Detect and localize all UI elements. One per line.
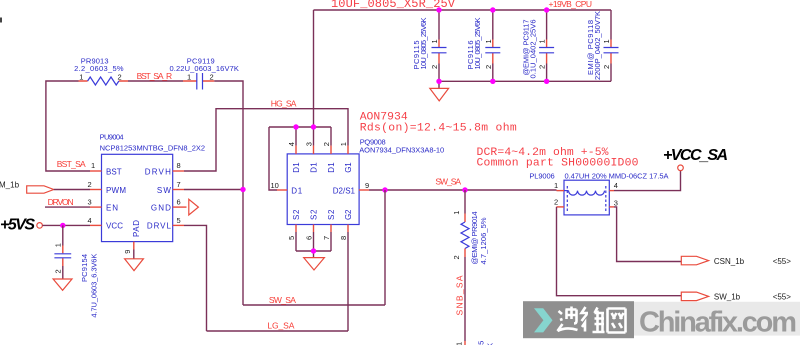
svg-text:Chinafix.com: Chinafix.com bbox=[639, 307, 797, 339]
svg-text:DRVON: DRVON bbox=[48, 197, 74, 207]
svg-text:2: 2 bbox=[484, 65, 493, 69]
svg-text:SW: SW bbox=[157, 186, 171, 195]
svg-text:PU9004: PU9004 bbox=[100, 133, 124, 142]
node pin9 junction dot bbox=[382, 187, 387, 192]
svg-text:D2/S1: D2/S1 bbox=[333, 186, 356, 195]
label sheet ref 55b bbox=[773, 293, 792, 302]
svg-text:2: 2 bbox=[88, 180, 92, 189]
svg-text:2: 2 bbox=[54, 269, 63, 273]
svg-text:DRVL: DRVL bbox=[147, 222, 172, 231]
pin number 1 PC9117 bbox=[538, 39, 547, 43]
port CSN_1b arrow bbox=[681, 256, 708, 265]
svg-text:Common part SH00000ID00: Common part SH00000ID00 bbox=[477, 158, 639, 170]
capacitor PC9116 bbox=[485, 10, 500, 81]
pin number 1 PR9013 bbox=[79, 73, 83, 82]
svg-text:Rds(on)=12.4~15.8m ohm: Rds(on)=12.4~15.8m ohm bbox=[360, 122, 517, 134]
node SW_SA bottom label bbox=[269, 295, 296, 305]
svg-text:55: 55 bbox=[477, 341, 486, 345]
pin number 1 PC9119 bbox=[187, 73, 191, 82]
pin 9 D2/S1 bbox=[333, 181, 369, 195]
pin 2 D1 top bbox=[322, 127, 336, 173]
svg-text:BST_SA: BST_SA bbox=[57, 159, 86, 169]
node SW junction dot bbox=[240, 187, 245, 192]
ground FET source bbox=[304, 258, 325, 270]
svg-text:PWM: PWM bbox=[106, 186, 126, 195]
svg-text:2: 2 bbox=[554, 197, 558, 206]
wire pin4 to +VCC_SA bbox=[614, 171, 681, 191]
svg-text:1: 1 bbox=[602, 39, 611, 43]
svg-text:1: 1 bbox=[452, 211, 461, 215]
svg-text:2: 2 bbox=[322, 142, 331, 146]
pin 5 S2 bottom bbox=[287, 209, 301, 251]
node SW_SA right label bbox=[435, 177, 461, 187]
node SNB junction dot bbox=[462, 187, 467, 192]
value 4.7_1206_5% bbox=[479, 217, 488, 264]
svg-text:8: 8 bbox=[177, 161, 181, 170]
label PQ9008 bbox=[360, 138, 386, 147]
svg-text:10U_0805_25V6K: 10U_0805_25V6K bbox=[419, 18, 428, 70]
svg-text:CSN_1b: CSN_1b bbox=[714, 257, 745, 266]
wire DRVL to LG_SA bbox=[184, 225, 207, 331]
label fragment 55 bbox=[477, 341, 486, 345]
svg-text:D1: D1 bbox=[292, 162, 301, 173]
svg-text:9: 9 bbox=[123, 250, 132, 254]
wire FET source bus bbox=[296, 251, 331, 258]
port SW_1b arrow bbox=[681, 292, 708, 301]
port PWM_1b input arrow bbox=[27, 186, 90, 193]
value label 10UF_0805_X5R_25V bbox=[331, 0, 456, 11]
pin number 2 PC9116 bbox=[484, 65, 493, 69]
resistor PR9013 bbox=[79, 77, 129, 85]
svg-text:1: 1 bbox=[54, 243, 63, 247]
svg-text:1: 1 bbox=[187, 73, 191, 82]
node BST_SA_R bbox=[137, 71, 173, 81]
wire G2 to LG_SA bbox=[347, 232, 349, 331]
annotation Rds(on) bbox=[360, 122, 517, 134]
pin number 2 PC9119 bbox=[210, 73, 214, 82]
svg-text:PC9154: PC9154 bbox=[80, 254, 89, 282]
wire pin2 to SW_1b bbox=[557, 207, 682, 296]
pin number 1 PC9116 bbox=[484, 39, 493, 43]
svg-text:AON7934_DFN3X3A8-10: AON7934_DFN3X3A8-10 bbox=[359, 145, 444, 154]
svg-text:4: 4 bbox=[88, 216, 92, 225]
pin number 1 bottom cut bbox=[455, 342, 464, 345]
label PC9116 bbox=[466, 41, 475, 70]
svg-text:2: 2 bbox=[118, 73, 122, 82]
value 0.47UH 20% MMD-06CZ 17.5A bbox=[565, 172, 669, 181]
svg-text:SW_SA: SW_SA bbox=[269, 295, 296, 305]
wire SW pin7 to vertical bbox=[184, 189, 243, 191]
pin number 2 PC9118 bbox=[602, 65, 611, 69]
svg-text:5: 5 bbox=[177, 216, 181, 225]
node BST_SA bbox=[57, 159, 86, 169]
pin 6 GND stub bbox=[151, 198, 187, 213]
svg-text:+VCC_SA: +VCC_SA bbox=[663, 147, 728, 164]
inductor PL9006 body bbox=[564, 180, 609, 215]
svg-text:2: 2 bbox=[602, 65, 611, 69]
label PC9115 bbox=[412, 41, 421, 70]
svg-text:PL9006: PL9006 bbox=[529, 172, 554, 181]
node +5VS bbox=[0, 217, 42, 234]
junction dots top rail bbox=[436, 7, 549, 12]
wire PR9013 to PC9119 bbox=[128, 80, 183, 82]
edge mark top-left bbox=[0, 18, 2, 23]
svg-text:3: 3 bbox=[88, 198, 92, 207]
svg-text:8: 8 bbox=[339, 236, 348, 240]
svg-text:0.47UH 20% MMD-06CZ 17.5A: 0.47UH 20% MMD-06CZ 17.5A bbox=[565, 172, 669, 181]
label PC9119 bbox=[187, 56, 215, 65]
node VCC junction bbox=[60, 223, 65, 228]
wire cap bank bottom rail bbox=[439, 80, 611, 82]
watermark chevron bbox=[534, 308, 553, 332]
svg-text:BST: BST bbox=[106, 167, 122, 176]
pin 1 BST stub bbox=[90, 161, 122, 176]
svg-text:4.7U_0603_6.3V6K: 4.7U_0603_6.3V6K bbox=[90, 254, 99, 318]
svg-text:4: 4 bbox=[614, 181, 618, 190]
pin 8 DRVH stub bbox=[145, 161, 184, 176]
pin 7 SW stub bbox=[157, 180, 184, 195]
svg-text:S2: S2 bbox=[310, 209, 319, 220]
pin number 2 PR9014 bbox=[452, 255, 461, 259]
pin 3 PL9006 bbox=[609, 199, 618, 208]
svg-text:1: 1 bbox=[484, 39, 493, 43]
svg-text:7: 7 bbox=[322, 236, 331, 240]
annotation DCR bbox=[477, 147, 609, 159]
capacitor PC9115 bbox=[432, 10, 447, 81]
wire LG_SA run bbox=[207, 330, 349, 332]
wire +19VB top rail bbox=[314, 9, 612, 11]
label sheet ref 55 bbox=[773, 257, 792, 266]
watermark CJK xun bbox=[558, 307, 578, 332]
svg-text:6: 6 bbox=[177, 198, 181, 207]
svg-text:EN: EN bbox=[106, 203, 118, 212]
svg-text:DRVH: DRVH bbox=[145, 167, 171, 176]
wire DRVON / EN bbox=[45, 206, 90, 208]
svg-text:4: 4 bbox=[287, 142, 296, 146]
wire pin3 to CSN_1b bbox=[614, 207, 681, 262]
pin number 2 PR9013 bbox=[118, 73, 122, 82]
svg-text:2: 2 bbox=[210, 73, 214, 82]
label @EMI@ PR9014 bbox=[470, 212, 479, 265]
svg-text:SW_1b: SW_1b bbox=[714, 293, 741, 302]
watermark CJK wang bbox=[608, 309, 626, 333]
svg-text:1: 1 bbox=[430, 39, 439, 43]
svg-text:+5VS: +5VS bbox=[0, 217, 35, 234]
node source bus dot bbox=[311, 248, 316, 253]
pin number 1 PR9014 bbox=[452, 211, 461, 215]
svg-text:2: 2 bbox=[538, 65, 547, 69]
wire pin9 down to SW_SA bottom bbox=[384, 190, 386, 305]
label EMI@ PC9118 bbox=[586, 20, 595, 75]
svg-text:VCC: VCC bbox=[106, 222, 123, 231]
wire PC9119 to SW node vertical bbox=[214, 81, 243, 305]
wire FET drain bus bbox=[269, 127, 331, 190]
svg-text:PAD: PAD bbox=[132, 220, 141, 237]
node M_1b label bbox=[0, 180, 20, 189]
svg-text:+19VB_CPU: +19VB_CPU bbox=[549, 0, 593, 9]
ground PAD bbox=[125, 259, 144, 271]
svg-text:@EMI@ PR9014: @EMI@ PR9014 bbox=[470, 212, 479, 265]
svg-text:4.7_1206_5%: 4.7_1206_5% bbox=[479, 217, 488, 264]
svg-text:1: 1 bbox=[79, 73, 83, 82]
node HG_SA bbox=[271, 98, 297, 108]
watermark CJK wei bbox=[582, 307, 605, 332]
node +19VB_CPU bbox=[549, 0, 593, 9]
transistor Q PQ9008 body bbox=[287, 154, 359, 225]
op-amp U PU9004 body bbox=[102, 154, 173, 241]
pin 3 D1 top bbox=[305, 127, 319, 173]
svg-text:7: 7 bbox=[177, 180, 181, 189]
pin 6 S2 bottom bbox=[305, 209, 319, 251]
svg-text:S2: S2 bbox=[292, 209, 301, 220]
label PL9006 bbox=[529, 172, 554, 181]
pin number 1 PC9118 bbox=[602, 39, 611, 43]
wire SW_SA from pin9 to inductor bbox=[369, 189, 557, 191]
label PC9154 bbox=[80, 254, 89, 282]
pin 4 VCC stub bbox=[88, 216, 124, 231]
value 2.2_0603_5% bbox=[74, 64, 124, 73]
node SW_1b label bbox=[714, 293, 741, 302]
svg-text:1: 1 bbox=[538, 39, 547, 43]
svg-text:HG_SA: HG_SA bbox=[271, 98, 297, 108]
pin number 1 PC9115 bbox=[430, 39, 439, 43]
svg-text:D1: D1 bbox=[291, 186, 303, 195]
ground cap bank bbox=[430, 81, 449, 101]
pin 2 PL9006 bbox=[554, 197, 564, 207]
pin 5 DRVL stub bbox=[147, 216, 184, 231]
wire BST_SA left loop bbox=[46, 81, 90, 171]
svg-text:3: 3 bbox=[305, 142, 314, 146]
value 4.7U_0603_6.3V6K bbox=[90, 254, 99, 318]
capacitor PC9119 bbox=[183, 73, 214, 90]
label PU9004 bbox=[100, 133, 124, 142]
svg-text:1: 1 bbox=[339, 142, 348, 146]
svg-text:GND: GND bbox=[151, 203, 171, 212]
pin 1 G1 top bbox=[339, 142, 353, 173]
svg-text:2: 2 bbox=[430, 65, 439, 69]
annotation AON7934 bbox=[360, 111, 408, 123]
watermark Chinafix.com bbox=[639, 307, 797, 339]
svg-text:2200P_0402_50V7K: 2200P_0402_50V7K bbox=[593, 11, 602, 80]
pin number 1 PC9154 bbox=[54, 243, 63, 247]
svg-text:9: 9 bbox=[365, 181, 369, 190]
node DRVON bbox=[48, 197, 74, 207]
value NCP81253MNTBG_DFN8_2X2 bbox=[100, 144, 206, 153]
pin number 2 PC9117 bbox=[538, 65, 547, 69]
pin 7 S2 bottom bbox=[322, 209, 336, 251]
svg-text:S2: S2 bbox=[327, 209, 336, 220]
annotation Common part bbox=[477, 158, 639, 170]
pin 9 PAD stub bbox=[123, 220, 141, 259]
svg-text:1: 1 bbox=[554, 181, 558, 190]
capacitor PC9117 bbox=[539, 10, 554, 81]
pin 1 PL9006 bbox=[554, 181, 564, 191]
svg-text:<55>: <55> bbox=[773, 257, 792, 266]
node dots FET drain bus bbox=[293, 124, 316, 129]
wire vertical from rail to FET drain bus bbox=[313, 10, 315, 127]
value 10U_0805_25V6K PC9115 bbox=[419, 18, 428, 70]
ground symbol pin6 arrow bbox=[189, 199, 199, 215]
svg-text:1: 1 bbox=[91, 161, 95, 170]
pin 4 D1 top bbox=[287, 127, 301, 173]
value fragment 7K bbox=[486, 343, 495, 345]
capacitor PC9118 bbox=[604, 10, 619, 81]
svg-text:SW_SA: SW_SA bbox=[435, 177, 461, 187]
svg-text:10U_0805_25V6K: 10U_0805_25V6K bbox=[473, 18, 482, 70]
label @EMI@ PC9117 bbox=[522, 20, 531, 76]
svg-text:NCP81253MNTBG_DFN8_2X2: NCP81253MNTBG_DFN8_2X2 bbox=[100, 144, 206, 153]
svg-text:D1: D1 bbox=[327, 162, 336, 173]
node SNB_SA bbox=[454, 275, 464, 315]
pin 2 PWM stub bbox=[88, 180, 127, 195]
svg-text:6: 6 bbox=[305, 236, 314, 240]
pin 3 EN stub bbox=[88, 198, 119, 213]
svg-text:LG_SA: LG_SA bbox=[267, 320, 294, 330]
svg-text:G2: G2 bbox=[344, 209, 353, 220]
wire SW_SA bottom run bbox=[243, 304, 385, 306]
svg-text:0.1U_0402_25V6: 0.1U_0402_25V6 bbox=[529, 20, 538, 79]
pin number 2 PC9115 bbox=[430, 65, 439, 69]
pin 10 D1 bbox=[271, 181, 303, 195]
value 10U_0805_25V6K PC9116 bbox=[473, 18, 482, 70]
capacitor PC9154 bbox=[54, 225, 71, 279]
wire HG_SA bbox=[184, 109, 348, 171]
node +VCC_SA bbox=[663, 147, 728, 171]
pin number 2 PC9154 bbox=[54, 269, 63, 273]
node LG_SA label bbox=[267, 320, 294, 330]
value AON7934_DFN3X3A8-10 bbox=[359, 145, 444, 154]
value 0.1U_0402_25V6 PC9117 bbox=[529, 20, 538, 79]
pin 4 PL9006 bbox=[609, 181, 618, 191]
svg-text:0.22U_0603_16V7K: 0.22U_0603_16V7K bbox=[170, 64, 239, 73]
ground PC9154 bbox=[53, 279, 72, 290]
value 2200P_0402_50V7K PC9118 bbox=[593, 11, 602, 80]
pin 8 G2 bottom bbox=[339, 209, 353, 240]
svg-text:BST_SA_R: BST_SA_R bbox=[137, 71, 173, 81]
svg-text:2: 2 bbox=[452, 255, 461, 259]
svg-text:5: 5 bbox=[287, 236, 296, 240]
resistor PR9014 bbox=[461, 190, 469, 345]
svg-text:<55>: <55> bbox=[773, 293, 792, 302]
watermark bar bbox=[523, 301, 800, 338]
junction dots bottom rail bbox=[436, 79, 549, 84]
node CSN_1b label bbox=[714, 257, 745, 266]
svg-text:M_1b: M_1b bbox=[0, 180, 20, 189]
label PR9013 bbox=[81, 56, 109, 65]
svg-text:SNB_SA: SNB_SA bbox=[454, 275, 464, 315]
wire +5VS to VCC bbox=[42, 224, 90, 226]
svg-text:D1: D1 bbox=[310, 162, 319, 173]
svg-text:G1: G1 bbox=[344, 162, 353, 173]
value 0.22U_0603_16V7K bbox=[170, 64, 239, 73]
svg-text:10: 10 bbox=[271, 181, 279, 190]
